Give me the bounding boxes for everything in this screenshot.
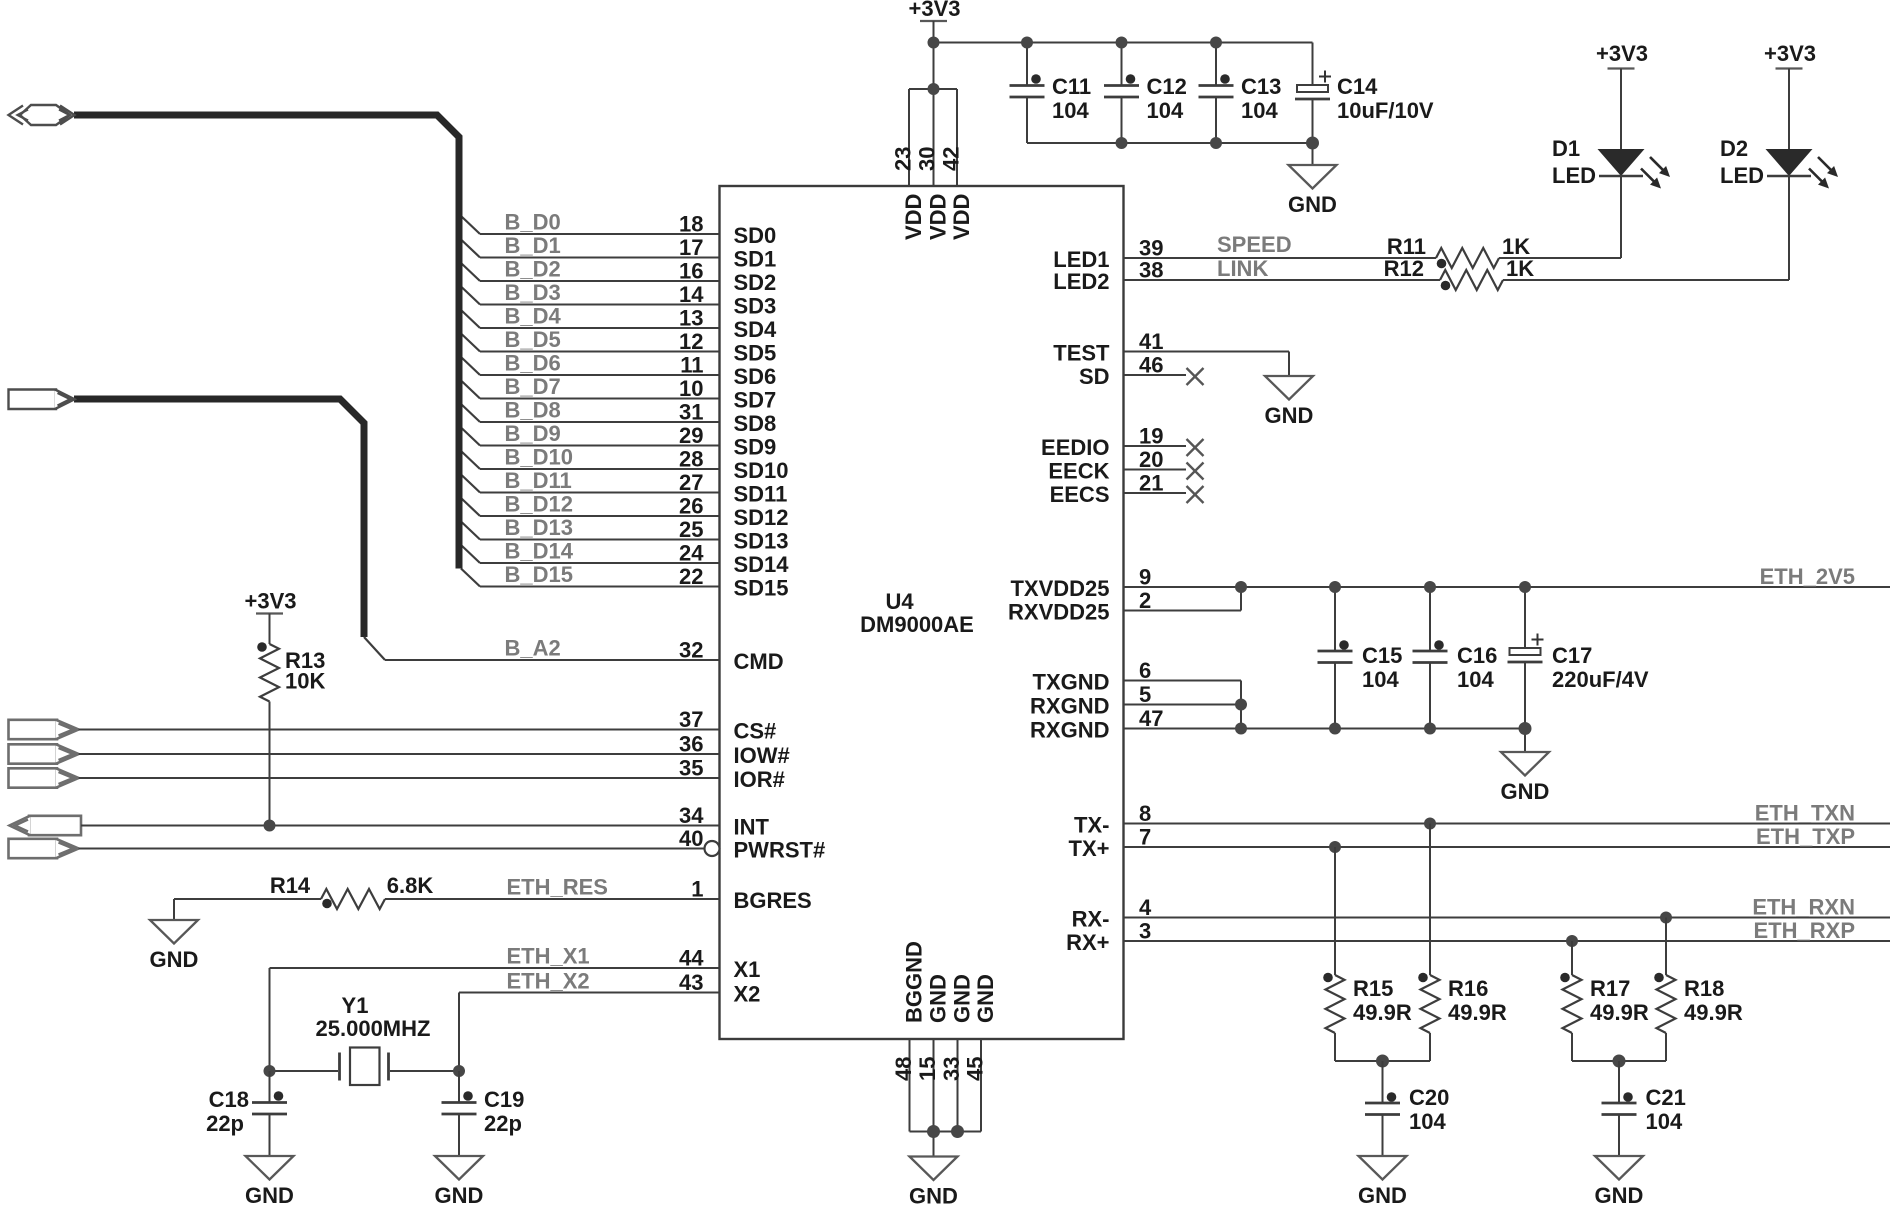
resistor R12 1K [1384, 256, 1535, 290]
power +3V3 (D1) [1596, 41, 1648, 69]
pin 28 SD10 [480, 447, 789, 484]
pin 23 VDD [891, 147, 927, 240]
pin 1 BGRES wire [385, 877, 812, 914]
svg-text:25: 25 [679, 517, 703, 542]
svg-text:6.8K: 6.8K [387, 873, 434, 898]
svg-text:38: 38 [1139, 258, 1163, 283]
svg-text:36: 36 [679, 732, 703, 757]
svg-text:SD8: SD8 [734, 411, 777, 436]
pin 17 SD1 [480, 235, 776, 272]
svg-text:VDD: VDD [901, 194, 926, 240]
pin 4 RX- wire / net ETH_RXN [1072, 895, 1890, 932]
svg-text:ETH_X2: ETH_X2 [507, 969, 590, 994]
bus entry diagonal B_D11 [461, 475, 480, 493]
junction ETH_2V5 C16 [1424, 581, 1436, 593]
address bus wire (B_A2) [74, 399, 364, 637]
bus entry diagonal B_D6 [461, 357, 480, 375]
svg-text:C15: C15 [1362, 643, 1402, 668]
svg-text:+3V3: +3V3 [1596, 41, 1648, 66]
svg-text:INT: INT [734, 815, 770, 840]
rail R15-R16 [1335, 1060, 1430, 1062]
pin 29 SD9 [480, 423, 776, 460]
pin 5 RXGND wire [1030, 682, 1241, 719]
pin 6 TXGND wire [1033, 658, 1242, 729]
svg-text:22p: 22p [206, 1111, 244, 1136]
bus entry diagonal B_D2 [461, 263, 480, 281]
svg-text:GND: GND [1265, 403, 1314, 428]
svg-text:C12: C12 [1147, 74, 1187, 99]
pin 12 SD5 [480, 329, 776, 366]
LED D2 [1720, 69, 1838, 189]
svg-text:ETH_2V5: ETH_2V5 [1760, 564, 1855, 589]
svg-text:GND: GND [1595, 1183, 1644, 1206]
pin 36 IOW# wire [79, 732, 790, 769]
svg-text:EEDIO: EEDIO [1041, 435, 1109, 460]
connector arrow PWRST# [9, 839, 58, 858]
svg-text:R18: R18 [1684, 976, 1724, 1001]
svg-text:6: 6 [1139, 658, 1151, 683]
power +3V3 (R13) [256, 612, 283, 614]
svg-text:27: 27 [679, 470, 703, 495]
svg-text:B_D9: B_D9 [505, 421, 561, 446]
pin 42 VDD [939, 147, 975, 240]
svg-text:49.9R: 49.9R [1590, 1000, 1649, 1025]
pin 14 SD3 [480, 282, 776, 319]
capacitor C21 104 [1602, 1061, 1686, 1156]
pin 47 RXGND wire / cap ground rail [1030, 706, 1525, 743]
junction gnd rail C15 [1329, 723, 1341, 735]
capacitor C18 22p [206, 1071, 287, 1156]
pin 38 LED2 wire [1053, 258, 1440, 295]
junction bottom rail C13 [1210, 137, 1222, 149]
svg-text:B_D11: B_D11 [505, 468, 572, 493]
pin 11 SD6 [480, 353, 776, 390]
svg-text:Y1: Y1 [342, 993, 369, 1018]
bus entry diagonal B_D8 [461, 404, 480, 422]
junction ETH_2V5 C15 [1329, 581, 1341, 593]
svg-text:B_D8: B_D8 [505, 398, 561, 423]
svg-text:B_D15: B_D15 [505, 562, 573, 587]
ground GND (IC) [910, 1157, 958, 1181]
svg-text:10uF/10V: 10uF/10V [1337, 98, 1434, 123]
pin 44 X1 wire [270, 946, 761, 1072]
wire bus to CMD [364, 637, 385, 660]
svg-text:12: 12 [679, 329, 703, 354]
pin 7 TX+ wire / net ETH_TXP [1069, 825, 1890, 862]
bus entry diagonal B_D1 [461, 240, 480, 258]
svg-text:220uF/4V: 220uF/4V [1552, 667, 1649, 692]
svg-text:SD3: SD3 [734, 294, 777, 319]
svg-text:C13: C13 [1241, 74, 1281, 99]
svg-text:104: 104 [1052, 98, 1089, 123]
resistor R13 10K [257, 614, 325, 826]
svg-text:R15: R15 [1353, 976, 1393, 1001]
bus entry diagonal B_D0 [461, 216, 480, 234]
svg-text:B_D13: B_D13 [505, 515, 573, 540]
svg-text:SD6: SD6 [734, 364, 777, 389]
svg-text:LED: LED [1720, 163, 1764, 188]
bus entry diagonal B_D9 [461, 428, 480, 446]
svg-text:46: 46 [1139, 353, 1163, 378]
capacitor C11 104 [1010, 43, 1092, 144]
junction R17 top [1566, 935, 1578, 947]
svg-text:R14: R14 [270, 873, 311, 898]
svg-text:LED: LED [1552, 163, 1596, 188]
svg-text:B_D14: B_D14 [505, 539, 574, 564]
svg-text:30: 30 [915, 147, 940, 171]
svg-text:43: 43 [679, 970, 703, 995]
svg-text:37: 37 [679, 707, 703, 732]
crystal Y1 25.000MHZ [270, 993, 460, 1085]
pin 46 SD (no connect) [1079, 353, 1204, 390]
junction bottom rail b [951, 1125, 964, 1138]
pin 30 VDD [915, 147, 951, 240]
svg-text:104: 104 [1147, 98, 1184, 123]
svg-text:13: 13 [679, 306, 703, 331]
junction C21 rail [1613, 1055, 1626, 1068]
svg-text:SD9: SD9 [734, 435, 777, 460]
connector arrow IOR# [9, 768, 58, 787]
svg-text:SD13: SD13 [734, 529, 789, 554]
svg-text:GND: GND [435, 1183, 484, 1206]
svg-text:SD4: SD4 [734, 317, 778, 342]
ground GND (C21) [1595, 1156, 1643, 1180]
svg-text:VDD: VDD [949, 194, 974, 240]
svg-text:CS#: CS# [734, 719, 777, 744]
junction bottom rail a [927, 1125, 940, 1138]
junction R18 top [1660, 912, 1672, 924]
svg-text:5: 5 [1139, 682, 1151, 707]
pin 8 TX- wire / net ETH_TXN [1074, 801, 1890, 838]
junction C14 bottom rail [1306, 137, 1319, 150]
junction VDD bar [928, 83, 940, 95]
pin 9 TXVDD25 wire / net ETH_2V5 [1010, 565, 1890, 602]
pin 16 SD2 [480, 259, 776, 296]
svg-text:C20: C20 [1409, 1085, 1449, 1110]
svg-text:IOR#: IOR# [734, 767, 785, 792]
svg-text:22: 22 [679, 564, 703, 589]
svg-text:SPEED: SPEED [1217, 232, 1292, 257]
svg-text:EECS: EECS [1050, 482, 1110, 507]
svg-text:B_D10: B_D10 [505, 445, 573, 470]
bus entry diagonal B_D15 [461, 569, 480, 587]
svg-text:R17: R17 [1590, 976, 1630, 1001]
pin 37 CS# wire [79, 707, 777, 744]
svg-text:10: 10 [679, 376, 703, 401]
svg-text:4: 4 [1139, 895, 1152, 920]
junction top rail C13 [1210, 37, 1222, 49]
svg-text:ETH_TXN: ETH_TXN [1755, 801, 1855, 826]
capacitor C14 10uF/10V [1295, 43, 1434, 166]
junction +3V3 rail [928, 37, 940, 49]
junction ETH_2V5 C17 [1519, 581, 1531, 593]
pin 34 INT wire [81, 803, 770, 840]
svg-text:B_A2: B_A2 [505, 636, 561, 661]
pin 19 EEDIO (no connect) [1041, 424, 1203, 461]
svg-text:104: 104 [1646, 1109, 1683, 1134]
svg-text:SD1: SD1 [734, 247, 777, 272]
svg-text:21: 21 [1139, 471, 1163, 496]
capacitor C17 220uF/4V [1508, 587, 1649, 752]
connector arrow IOW# [9, 744, 58, 763]
svg-text:14: 14 [679, 282, 704, 307]
svg-text:U4: U4 [885, 589, 914, 614]
svg-text:8: 8 [1139, 801, 1151, 826]
svg-text:C16: C16 [1457, 643, 1497, 668]
junction X2-crystal [453, 1065, 465, 1077]
svg-text:RX-: RX- [1072, 907, 1110, 932]
resistor R18 49.9R [1654, 918, 1743, 1062]
svg-text:9: 9 [1139, 565, 1151, 590]
svg-text:RXVDD25: RXVDD25 [1008, 600, 1109, 625]
svg-text:104: 104 [1241, 98, 1278, 123]
capacitor C19 22p [442, 1071, 525, 1156]
svg-text:GND: GND [1288, 192, 1337, 217]
wire D2 cathode to R12 [1788, 176, 1790, 280]
bus entry diagonal B_D14 [461, 545, 480, 563]
capacitor C20 104 [1365, 1061, 1449, 1156]
junction bottom rail C12 [1116, 137, 1128, 149]
wire D1 cathode to R11 [1620, 176, 1622, 258]
power +3V3 (VDD rail) [920, 20, 947, 22]
ground GND (C18) [246, 1156, 294, 1180]
pin 48 BGGND [891, 941, 927, 1081]
svg-text:LED2: LED2 [1053, 269, 1109, 294]
svg-text:C21: C21 [1646, 1085, 1686, 1110]
svg-text:48: 48 [891, 1057, 916, 1081]
svg-text:BGGND: BGGND [902, 941, 927, 1023]
svg-text:42: 42 [939, 147, 964, 171]
capacitor C16 104 [1413, 587, 1498, 729]
pin 31 SD8 [480, 400, 776, 437]
connector arrow INT (output) [29, 816, 81, 835]
junction C20 rail [1376, 1055, 1389, 1068]
svg-text:EECK: EECK [1048, 459, 1109, 484]
junction RXVDD25-ETH_2V5 [1235, 581, 1247, 593]
svg-text:ETH_RXN: ETH_RXN [1752, 895, 1855, 920]
svg-text:B_D5: B_D5 [505, 327, 561, 352]
svg-text:10K: 10K [285, 669, 325, 694]
data bus wire (B_D0..B_D15) [74, 115, 459, 569]
svg-text:TX-: TX- [1074, 813, 1109, 838]
svg-text:20: 20 [1139, 447, 1163, 472]
svg-text:18: 18 [679, 212, 703, 237]
svg-text:GND: GND [973, 974, 998, 1023]
svg-text:SD7: SD7 [734, 388, 777, 413]
pin 13 SD4 [480, 306, 777, 343]
svg-text:B_D0: B_D0 [505, 210, 561, 235]
pin 40 PWRST# wire with inverter bubble [79, 826, 826, 863]
svg-text:B_D7: B_D7 [505, 374, 561, 399]
svg-text:+3V3: +3V3 [245, 589, 297, 614]
resistor R11 1K [1387, 234, 1530, 268]
IC U4 DM9000AE body [720, 186, 1124, 1039]
ground GND (C19) [435, 1156, 483, 1180]
svg-text:28: 28 [679, 447, 703, 472]
svg-text:ETH_TXP: ETH_TXP [1756, 824, 1855, 849]
junction R15 top [1329, 841, 1341, 853]
bus connector arrow (data bus, bidirectional) [9, 105, 75, 125]
svg-text:RXGND: RXGND [1030, 718, 1109, 743]
LED D1 [1552, 69, 1670, 189]
svg-text:22p: 22p [484, 1111, 522, 1136]
pin 26 SD12 [480, 494, 789, 531]
svg-text:PWRST#: PWRST# [734, 838, 826, 863]
svg-text:TX+: TX+ [1069, 836, 1110, 861]
ground GND (R14) [150, 899, 199, 972]
pin 35 IOR# wire [79, 756, 785, 793]
svg-text:GND: GND [245, 1183, 294, 1206]
svg-text:19: 19 [1139, 424, 1163, 449]
svg-text:GND: GND [1501, 779, 1550, 804]
ground GND (C20) [1359, 1156, 1407, 1180]
svg-text:BGRES: BGRES [734, 888, 812, 913]
svg-text:ETH_RES: ETH_RES [507, 875, 608, 900]
svg-text:17: 17 [679, 235, 703, 260]
svg-text:104: 104 [1409, 1109, 1446, 1134]
pin 2 RXVDD25 wire [1008, 587, 1241, 625]
svg-text:D2: D2 [1720, 136, 1748, 161]
svg-text:31: 31 [679, 400, 703, 425]
svg-text:LINK: LINK [1217, 256, 1268, 281]
svg-text:49.9R: 49.9R [1448, 1000, 1507, 1025]
pin 20 EECK (no connect) [1048, 447, 1203, 484]
svg-text:ETH_X1: ETH_X1 [507, 944, 590, 969]
svg-text:B_D3: B_D3 [505, 280, 561, 305]
svg-text:R16: R16 [1448, 976, 1488, 1001]
svg-text:C19: C19 [484, 1087, 524, 1112]
bus entry diagonal B_D5 [461, 334, 480, 352]
svg-text:SD12: SD12 [734, 505, 789, 530]
svg-text:+3V3: +3V3 [909, 0, 961, 21]
junction top rail C12 [1116, 37, 1128, 49]
junction gnd rail C17 [1519, 722, 1532, 735]
bus entry diagonal B_D12 [461, 498, 480, 516]
svg-text:ETH_RXP: ETH_RXP [1754, 918, 1855, 943]
pin 41 TEST wire [1053, 329, 1289, 376]
resistor R14 6.8K [174, 873, 433, 909]
junction top rail C11 [1021, 37, 1033, 49]
connector arrow CS# [9, 720, 58, 739]
svg-text:+3V3: +3V3 [1764, 41, 1816, 66]
bus entry diagonal B_D13 [461, 522, 480, 540]
svg-text:VDD: VDD [926, 194, 951, 240]
bus connector arrow (address bus) [9, 390, 75, 410]
svg-text:104: 104 [1362, 667, 1399, 692]
svg-text:C14: C14 [1337, 74, 1378, 99]
junction X1-crystal [264, 1065, 276, 1077]
svg-text:2: 2 [1139, 588, 1151, 613]
rail R17-R18 [1572, 1060, 1666, 1062]
svg-text:B_D6: B_D6 [505, 351, 561, 376]
pin 27 SD11 [480, 470, 787, 507]
pin 18 SD0 [480, 212, 776, 249]
svg-text:SD10: SD10 [734, 458, 789, 483]
capacitor C15 104 [1318, 587, 1403, 729]
svg-text:B_D1: B_D1 [505, 233, 561, 258]
svg-text:C17: C17 [1552, 643, 1592, 668]
pin 21 EECS (no connect) [1050, 471, 1204, 508]
pin 32 CMD [679, 638, 784, 675]
wire R12 to D2 [1503, 279, 1789, 281]
svg-text:GND: GND [950, 974, 975, 1023]
svg-text:X2: X2 [734, 982, 761, 1007]
svg-text:34: 34 [679, 803, 704, 828]
bus entry diagonal B_D10 [461, 451, 480, 469]
svg-text:TEST: TEST [1053, 341, 1110, 366]
junction gnd rail C16 [1424, 723, 1436, 735]
pin 43 X2 wire [459, 970, 760, 1071]
svg-text:TXGND: TXGND [1033, 670, 1110, 695]
pin 10 SD7 [480, 376, 776, 413]
svg-text:B_D12: B_D12 [505, 492, 573, 517]
junction rail pin47 [1235, 723, 1247, 735]
svg-text:40: 40 [679, 826, 703, 851]
svg-text:RX+: RX+ [1066, 930, 1109, 955]
svg-text:25.000MHZ: 25.000MHZ [316, 1016, 431, 1041]
svg-text:SD11: SD11 [734, 482, 788, 507]
bottom rail of decoupling caps [1027, 142, 1313, 144]
svg-text:B_D4: B_D4 [505, 304, 562, 329]
svg-text:33: 33 [939, 1057, 964, 1081]
svg-text:15: 15 [915, 1057, 940, 1081]
junction R16 top [1424, 818, 1436, 830]
junction RXGND pin5 [1235, 699, 1247, 711]
svg-text:C11: C11 [1052, 74, 1091, 99]
svg-text:35: 35 [679, 756, 703, 781]
pin 45 GND [963, 974, 999, 1081]
capacitor C13 104 [1199, 43, 1282, 144]
junction R13-INT [264, 820, 276, 832]
svg-text:1K: 1K [1506, 256, 1534, 281]
svg-text:23: 23 [891, 147, 916, 171]
pin 15 GND [915, 974, 951, 1081]
power +3V3 (D2) [1764, 41, 1816, 69]
svg-text:D1: D1 [1552, 136, 1580, 161]
pin 3 RX+ wire / net ETH_RXP [1066, 919, 1890, 956]
svg-text:11: 11 [680, 353, 703, 378]
resistor R15 49.9R [1323, 847, 1412, 1061]
svg-text:41: 41 [1139, 329, 1163, 354]
bus entry diagonal B_D7 [461, 381, 480, 399]
svg-text:104: 104 [1457, 667, 1494, 692]
svg-text:16: 16 [679, 259, 703, 284]
svg-text:X1: X1 [734, 957, 761, 982]
svg-text:49.9R: 49.9R [1684, 1000, 1743, 1025]
svg-text:29: 29 [679, 423, 703, 448]
svg-text:32: 32 [679, 638, 703, 663]
ground GND (C14) [1289, 165, 1337, 189]
svg-text:GND: GND [150, 947, 199, 972]
pin 25 SD13 [480, 517, 789, 554]
svg-text:44: 44 [679, 946, 704, 971]
wire +3V3 to VDD pins [909, 21, 1313, 186]
pin 39 LED1 wire [1053, 236, 1436, 273]
svg-text:GND: GND [909, 1184, 958, 1206]
svg-text:TXVDD25: TXVDD25 [1010, 576, 1109, 601]
svg-text:SD5: SD5 [734, 341, 777, 366]
svg-text:7: 7 [1139, 825, 1151, 850]
resistor R16 49.9R [1418, 824, 1507, 1062]
ground GND (C17) [1501, 752, 1549, 776]
svg-text:CMD: CMD [734, 649, 784, 674]
bus entry diagonal B_D3 [461, 287, 480, 305]
pin 33 GND [939, 974, 975, 1081]
svg-text:DM9000AE: DM9000AE [860, 612, 974, 637]
capacitor C12 104 [1104, 43, 1187, 144]
pin 22 SD15 [480, 564, 789, 601]
svg-text:SD15: SD15 [734, 576, 789, 601]
